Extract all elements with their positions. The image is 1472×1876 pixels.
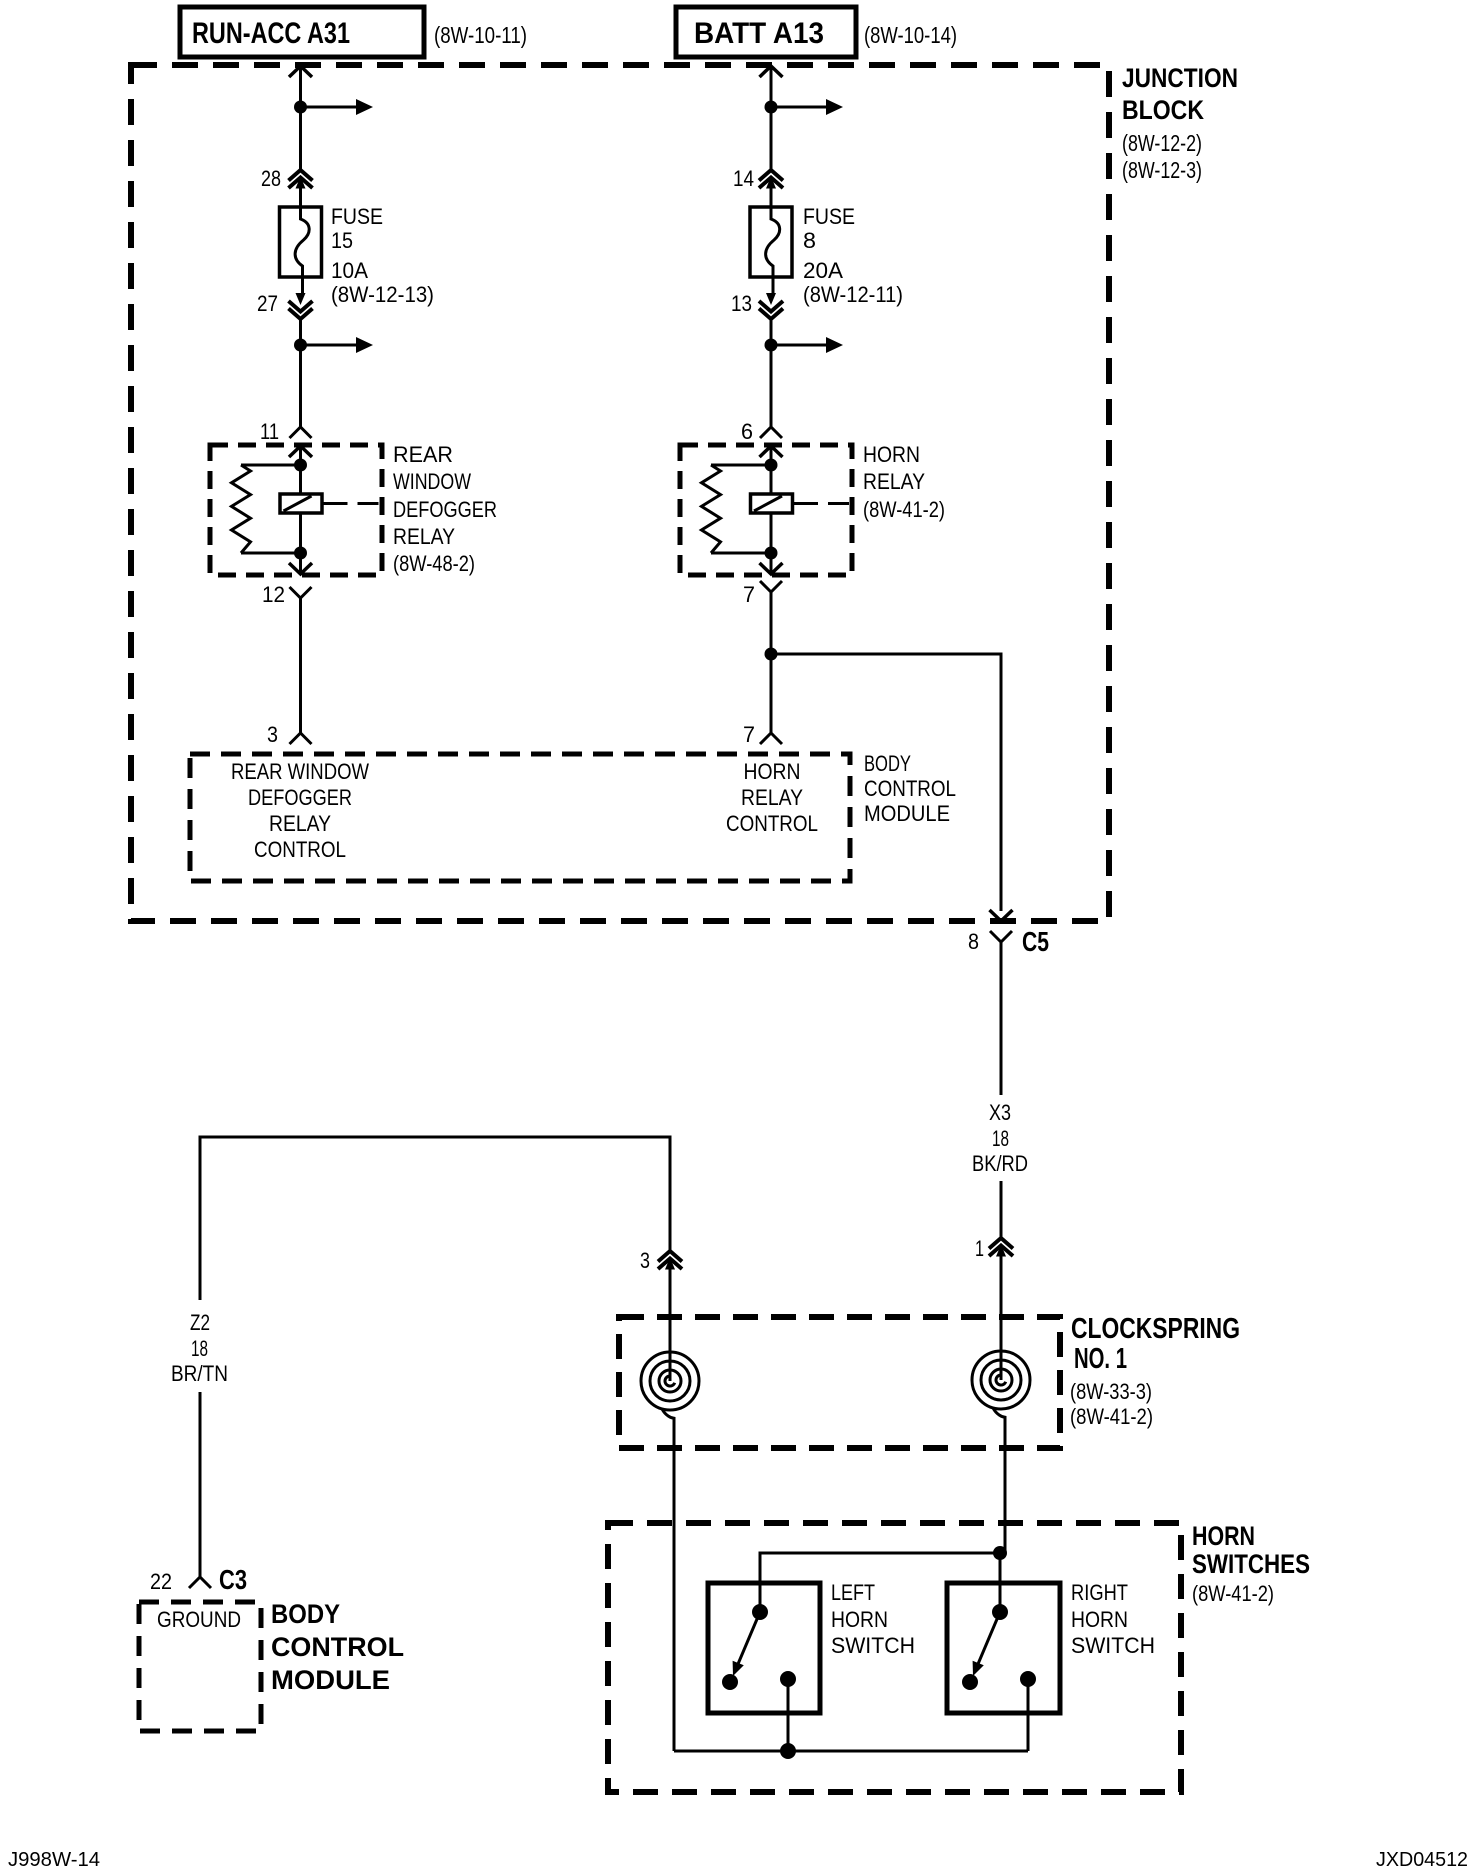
svg-text:RELAY: RELAY	[863, 469, 925, 494]
svg-text:CONTROL: CONTROL	[254, 837, 346, 862]
node horn feed split	[993, 1546, 1007, 1560]
svg-text:X3: X3	[989, 1100, 1011, 1125]
svg-text:15: 15	[331, 228, 353, 253]
connector pin 14	[759, 170, 783, 181]
svg-text:BODY: BODY	[271, 1599, 340, 1629]
fuse 15 10A	[280, 207, 322, 277]
svg-text:Z2: Z2	[190, 1310, 210, 1335]
right horn switch box	[947, 1583, 1060, 1713]
svg-text:11: 11	[260, 419, 279, 444]
ground rail wire	[674, 1750, 1028, 1753]
clockspring dashed box	[619, 1317, 1060, 1448]
connector pin 6	[760, 427, 782, 438]
svg-text:RELAY: RELAY	[269, 811, 331, 836]
connector pin 11	[290, 427, 312, 438]
svg-text:(8W-41-2): (8W-41-2)	[1070, 1404, 1153, 1429]
svg-text:HORN: HORN	[744, 759, 801, 784]
svg-text:JXD04512: JXD04512	[1376, 1849, 1468, 1871]
svg-text:LEFT: LEFT	[831, 1580, 875, 1605]
svg-text:NO. 1: NO. 1	[1074, 1343, 1127, 1375]
wire fuse to connector 13	[772, 277, 775, 293]
feed box RUN-ACC A31	[180, 7, 424, 57]
connector pin 28	[289, 170, 313, 181]
connector pin 3	[290, 733, 312, 744]
wire BCM pin 22 Z2 ground run	[199, 1392, 202, 1577]
svg-text:27: 27	[257, 291, 278, 316]
svg-text:MODULE: MODULE	[864, 801, 950, 826]
svg-text:CONTROL: CONTROL	[864, 776, 956, 801]
svg-text:8: 8	[968, 929, 979, 954]
clockspring coil left	[659, 1370, 681, 1392]
connector pin 7	[760, 581, 782, 592]
horn switches dashed box	[608, 1523, 1181, 1792]
wire node to relay pin 6	[770, 345, 773, 427]
connector pin 27	[289, 309, 313, 320]
fuse 8 20A	[750, 207, 792, 277]
svg-text:22: 22	[150, 1569, 172, 1594]
svg-text:FUSE: FUSE	[331, 204, 383, 229]
node below fuse 8	[765, 339, 778, 352]
svg-text:J998W-14: J998W-14	[8, 1849, 100, 1871]
svg-text:7: 7	[743, 722, 755, 747]
svg-text:BODY: BODY	[864, 751, 911, 776]
svg-text:13: 13	[731, 291, 752, 316]
svg-text:REAR: REAR	[393, 442, 453, 467]
svg-text:10A: 10A	[331, 258, 368, 283]
connector 22 C3	[189, 1577, 211, 1588]
node horn relay output	[765, 648, 778, 661]
svg-text:RELAY: RELAY	[393, 524, 455, 549]
wire connector 27 to node	[299, 319, 302, 345]
svg-text:RELAY: RELAY	[741, 785, 803, 810]
feed box BATT A13	[676, 7, 856, 57]
wire node to relay pin 11	[299, 345, 302, 427]
junction block dashed box	[131, 65, 1109, 921]
svg-text:FUSE: FUSE	[803, 204, 855, 229]
svg-text:GROUND: GROUND	[157, 1607, 241, 1632]
svg-text:DEFOGGER: DEFOGGER	[393, 497, 497, 522]
svg-text:12: 12	[262, 582, 285, 607]
svg-text:C5: C5	[1022, 926, 1049, 957]
node ground rail	[780, 1743, 796, 1759]
right switch output wire	[1027, 1679, 1030, 1751]
svg-text:(8W-12-13): (8W-12-13)	[331, 282, 434, 307]
svg-text:SWITCHES: SWITCHES	[1192, 1549, 1310, 1579]
svg-text:20A: 20A	[803, 258, 843, 283]
svg-text:18: 18	[992, 1126, 1009, 1151]
wire clockspring right to horn switch node	[1004, 1423, 1007, 1553]
svg-text:DEFOGGER: DEFOGGER	[248, 785, 352, 810]
connector pin 13	[759, 309, 783, 320]
svg-text:CLOCKSPRING: CLOCKSPRING	[1071, 1313, 1240, 1345]
wire relay pin 7 down	[770, 592, 773, 733]
body control module ground dashed box	[139, 1602, 261, 1731]
wire node to connector 28	[299, 107, 302, 170]
svg-text:(8W-41-2): (8W-41-2)	[863, 497, 945, 522]
wire BATT feed into junction block	[760, 66, 783, 77]
clockspring coil right	[990, 1369, 1012, 1391]
svg-text:RUN-ACC A31: RUN-ACC A31	[192, 17, 350, 50]
node on BATT feed	[765, 101, 778, 114]
svg-text:(8W-10-14): (8W-10-14)	[864, 22, 957, 48]
svg-text:(8W-12-11): (8W-12-11)	[803, 282, 903, 307]
svg-text:(8W-41-2): (8W-41-2)	[1192, 1581, 1274, 1606]
wire connector 13 to node	[770, 319, 773, 345]
svg-text:BATT A13: BATT A13	[694, 17, 824, 50]
connector pin 12	[290, 587, 312, 598]
svg-text:RIGHT: RIGHT	[1071, 1580, 1128, 1605]
svg-text:3: 3	[267, 722, 278, 747]
svg-text:8: 8	[803, 228, 816, 253]
wire node to connector 14	[770, 107, 773, 170]
wire relay pin 12 to BCM pin 3	[299, 598, 302, 733]
connector pin 7 BCM	[760, 733, 782, 744]
svg-text:(8W-12-3): (8W-12-3)	[1122, 157, 1202, 183]
svg-text:HORN: HORN	[1192, 1521, 1255, 1551]
svg-text:HORN: HORN	[831, 1607, 888, 1632]
svg-text:BR/TN: BR/TN	[171, 1361, 228, 1386]
wire clockspring left to horn switch rail	[673, 1424, 676, 1751]
connector pin 1 clockspring	[989, 1238, 1013, 1249]
svg-text:BLOCK: BLOCK	[1122, 95, 1204, 125]
rear window defogger relay	[210, 445, 382, 575]
wire RUN-ACC feed into junction block	[289, 66, 312, 77]
svg-text:7: 7	[743, 582, 755, 607]
svg-text:SWITCH: SWITCH	[831, 1633, 915, 1658]
connector pin 3 clockspring	[658, 1251, 682, 1262]
wire fuse to connector 27	[301, 277, 304, 293]
svg-text:MODULE: MODULE	[271, 1665, 390, 1695]
branch arrow right	[771, 106, 827, 109]
svg-text:WINDOW: WINDOW	[393, 469, 471, 494]
svg-text:(8W-48-2): (8W-48-2)	[393, 551, 475, 576]
svg-text:(8W-10-11): (8W-10-11)	[434, 22, 527, 48]
svg-text:6: 6	[741, 419, 753, 444]
wire branch to C5	[771, 654, 1001, 911]
wire split to left switch	[760, 1553, 1005, 1612]
svg-text:1: 1	[975, 1236, 984, 1261]
branch arrow right	[301, 344, 358, 347]
svg-text:14: 14	[733, 166, 754, 191]
svg-text:(8W-33-3): (8W-33-3)	[1070, 1379, 1152, 1404]
connector 8 C5	[990, 931, 1012, 942]
svg-text:REAR WINDOW: REAR WINDOW	[231, 759, 369, 784]
node on RUN-ACC feed	[294, 101, 307, 114]
svg-text:(8W-12-2): (8W-12-2)	[1122, 130, 1202, 156]
svg-text:28: 28	[261, 166, 281, 191]
body control module dashed box	[190, 754, 850, 881]
svg-text:HORN: HORN	[1071, 1607, 1128, 1632]
branch arrow right	[771, 344, 827, 347]
left horn switch	[752, 1604, 768, 1620]
left switch output wire	[787, 1679, 790, 1751]
branch arrow right	[301, 106, 358, 109]
svg-text:CONTROL: CONTROL	[726, 811, 818, 836]
svg-text:18: 18	[191, 1336, 208, 1361]
svg-text:3: 3	[640, 1248, 650, 1273]
wire C5 to clockspring, X3 18 BK/RD	[1000, 942, 1003, 1095]
svg-text:BK/RD: BK/RD	[972, 1151, 1028, 1176]
svg-text:HORN: HORN	[863, 442, 920, 467]
node below fuse 15	[294, 339, 307, 352]
svg-text:JUNCTION: JUNCTION	[1122, 63, 1238, 93]
svg-text:SWITCH: SWITCH	[1071, 1633, 1155, 1658]
right horn switch	[992, 1604, 1008, 1620]
svg-text:CONTROL: CONTROL	[271, 1632, 404, 1662]
svg-text:C3: C3	[219, 1564, 247, 1595]
left horn switch box	[708, 1583, 820, 1713]
horn relay	[680, 445, 852, 575]
wire split to right switch	[999, 1553, 1002, 1612]
